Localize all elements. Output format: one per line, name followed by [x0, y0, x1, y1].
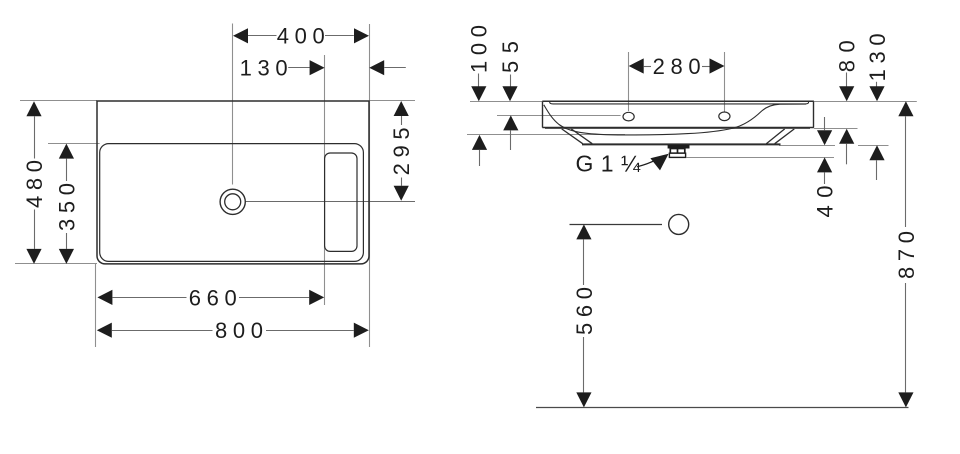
- svg-text:800: 800: [215, 318, 263, 343]
- rim inner line: [550, 102, 809, 104]
- bowl interior curve: [544, 104, 806, 135]
- foot inner slant right: [766, 129, 784, 144]
- svg-text:350: 350: [54, 183, 79, 231]
- wall drain height line: [570, 224, 663, 226]
- wall drain circle: [669, 214, 689, 234]
- dimension 660: [97, 285, 324, 310]
- centerline drain horizontal: [246, 201, 415, 203]
- foot bottom line: [582, 143, 781, 145]
- svg-text:400: 400: [277, 24, 325, 49]
- svg-text:660: 660: [189, 285, 237, 310]
- centerline drain vertical: [232, 24, 234, 185]
- dimension 400: [233, 24, 369, 49]
- dimension 560: [572, 224, 597, 407]
- svg-text:480: 480: [22, 160, 47, 208]
- svg-text:870: 870: [894, 231, 919, 279]
- dimension 480: [22, 101, 47, 264]
- shelf rectangle: [325, 153, 357, 251]
- extension line top left: [20, 100, 97, 102]
- dimension 295: [389, 101, 414, 201]
- tap hole height line 55: [497, 115, 621, 117]
- dimension 40: [813, 117, 838, 218]
- svg-text:100: 100: [467, 25, 492, 73]
- dimension 280: [629, 54, 725, 79]
- foot inner slant left: [571, 129, 592, 144]
- extension 280 right: [724, 52, 726, 112]
- drain stub black band: [668, 145, 690, 149]
- drain hole outer circle: [220, 189, 245, 214]
- extension line bottom left: [15, 263, 97, 265]
- extension line 130 vertical: [324, 55, 326, 305]
- dimension 800: [97, 318, 369, 343]
- dimension 870: [894, 101, 919, 407]
- rim extension right: [814, 101, 917, 103]
- drain bottom extension: [687, 157, 835, 159]
- basin slab outline: [542, 101, 814, 128]
- leader line G 1 1/4: [637, 160, 656, 167]
- tap hole right: [719, 112, 730, 121]
- svg-text:130: 130: [240, 56, 288, 81]
- bowl depth line 100: [467, 134, 625, 136]
- floor line: [536, 407, 909, 409]
- svg-text:295: 295: [389, 127, 414, 175]
- dimension 100: [467, 25, 492, 166]
- extension 280 left: [628, 52, 630, 111]
- svg-text:G 1 ¼: G 1 ¼: [576, 150, 641, 176]
- extension line left vertical 800: [95, 264, 97, 347]
- extension line 350 top: [48, 143, 100, 145]
- slab bottom extension right: [814, 128, 858, 130]
- rim extension left: [470, 101, 542, 103]
- svg-text:130: 130: [865, 33, 890, 81]
- drain thread: [670, 149, 685, 154]
- drain hole inner circle: [225, 194, 241, 210]
- dimension 130 right: [865, 33, 890, 180]
- dimension 55: [498, 41, 523, 150]
- foot outer slant left: [562, 129, 583, 144]
- leader arrowhead: [650, 154, 668, 171]
- svg-text:280: 280: [653, 54, 701, 79]
- basin outer rectangle: [97, 101, 369, 264]
- foot outer slant right: [775, 129, 795, 144]
- tap hole left: [623, 112, 634, 121]
- svg-text:560: 560: [572, 287, 597, 335]
- foot bottom extension right: [779, 145, 889, 147]
- dimension 80: [835, 40, 860, 164]
- dimension 350: [54, 144, 79, 264]
- drain collar: [669, 153, 685, 157]
- extension line top right: [369, 100, 415, 102]
- dimension 130 top: [240, 56, 406, 81]
- basin inner bowl rectangle: [100, 144, 364, 262]
- extension line right vertical: [369, 24, 371, 347]
- label G 1 1/4: [576, 150, 641, 176]
